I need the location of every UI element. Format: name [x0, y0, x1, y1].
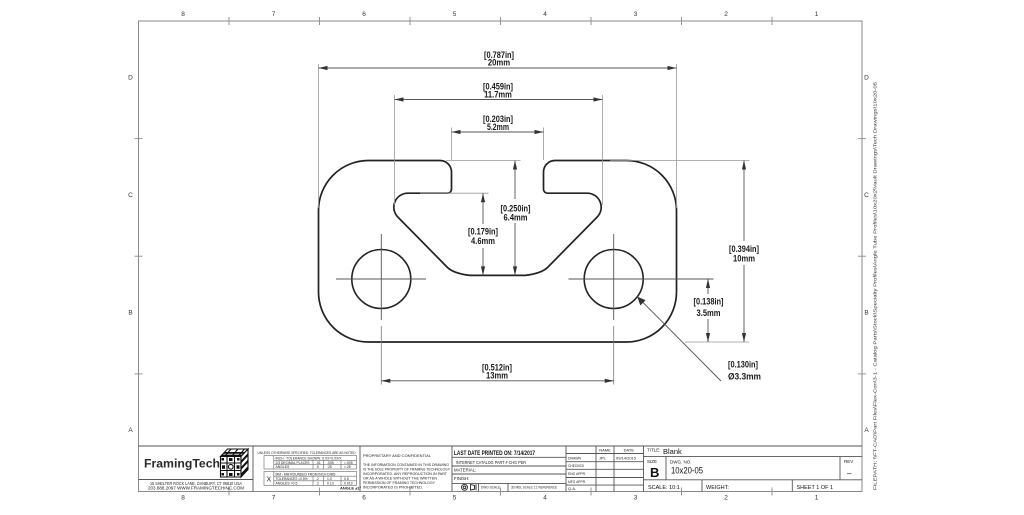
svg-text:.25: .25	[327, 465, 332, 469]
svg-text:3D MDL SCALE 1:1 REFERENCE: 3D MDL SCALE 1:1 REFERENCE	[511, 486, 557, 490]
svg-text:MFG APPR.: MFG APPR.	[568, 479, 586, 484]
dimension 4.6mm extension line	[420, 192, 489, 194]
svg-text:ANGLES =0.5: ANGLES =0.5	[276, 481, 298, 485]
svg-text:DATE: DATE	[624, 448, 635, 453]
svg-text:MM - MM ROUNDED FROM INCH DIMS: MM - MM ROUNDED FROM INCH DIMS	[276, 472, 337, 476]
svg-text:INCORPORATED IS PROHIBITED.: INCORPORATED IS PROHIBITED.	[363, 485, 423, 490]
dimension 6.4mm label	[501, 204, 531, 223]
svg-text:SCALE: 10:1: SCALE: 10:1	[648, 485, 680, 491]
svg-text:1.0: 1.0	[327, 477, 332, 481]
dimension 5.2mm line	[452, 131, 544, 133]
svg-text:4: 4	[543, 11, 547, 18]
svg-text:C: C	[864, 192, 869, 199]
svg-text:D: D	[128, 75, 133, 82]
svg-text:09/14/2015: 09/14/2015	[616, 456, 637, 461]
svg-text:PROPRIETARY AND CONFIDENTIAL: PROPRIETARY AND CONFIDENTIAL	[363, 453, 432, 458]
svg-text:DWG SCALE: DWG SCALE	[481, 486, 500, 490]
svg-text:DRAWN: DRAWN	[568, 456, 581, 461]
leader label	[728, 359, 761, 381]
svg-text:1: 1	[815, 495, 819, 502]
svg-text:TOLERANCES =0.5%: TOLERANCES =0.5%	[276, 477, 308, 481]
dimension 5.2mm extension lines	[451, 128, 453, 161]
dimension 3.5mm label	[694, 297, 724, 318]
svg-text:C: C	[128, 192, 133, 199]
dimension 11.7mm line	[395, 99, 603, 101]
dimension 11.7mm label	[483, 82, 513, 100]
centerline right hole horizontal	[569, 278, 714, 280]
svg-text:10x20-05: 10x20-05	[671, 466, 703, 476]
svg-text:11.7mm: 11.7mm	[484, 89, 512, 99]
svg-text:6: 6	[362, 11, 366, 18]
projection symbol	[462, 484, 477, 490]
svg-text:SIZE: SIZE	[647, 459, 657, 464]
svg-text:5: 5	[453, 495, 457, 502]
svg-text:[0.179in]: [0.179in]	[468, 227, 498, 237]
printed cell row lines	[452, 456, 566, 458]
right face stripes	[241, 453, 248, 464]
dimension 10mm label	[729, 244, 759, 264]
svg-text:.5: .5	[316, 465, 319, 469]
svg-text:7: 7	[272, 495, 276, 502]
dimension 3.5mm line	[707, 279, 709, 294]
dimension 4.6mm line	[482, 193, 484, 224]
hole left	[352, 250, 411, 309]
svg-text:1: 1	[815, 11, 819, 18]
svg-text:ENG APPR.: ENG APPR.	[568, 471, 586, 476]
svg-text:X: X	[266, 477, 271, 484]
border zone ticks	[135, 17, 867, 496]
svg-text:20mm: 20mm	[488, 58, 510, 68]
svg-text:FILEPATH: \\FT-CAD\Part Files\: FILEPATH: \\FT-CAD\Part Files\Flex-Con\3…	[873, 81, 878, 490]
svg-text:=.005: =.005	[344, 461, 353, 465]
svg-text:Ø3.3mm: Ø3.3mm	[728, 372, 761, 382]
svg-text:A: A	[128, 427, 133, 434]
sheet border frame	[139, 21, 863, 492]
logo extrusion cube	[221, 449, 249, 477]
svg-text:FramingTech: FramingTech	[144, 459, 220, 471]
svg-text:LAST DATE PRINTED ON: 7/14/201: LAST DATE PRINTED ON: 7/14/2017	[454, 450, 535, 457]
svg-text:3.5mm: 3.5mm	[697, 308, 721, 318]
svg-text:UNLESS OTHERWISE SPECIFIED: TO: UNLESS OTHERWISE SPECIFIED: TOLERANCES A…	[258, 450, 356, 455]
dimension 6.4mm extension line	[446, 160, 521, 162]
svg-text:D: D	[864, 75, 869, 82]
svg-text:ANGLES: ANGLES	[276, 465, 290, 469]
svg-text:B: B	[128, 310, 132, 317]
svg-text:0.13: 0.13	[327, 481, 334, 485]
logo address lines	[148, 481, 245, 490]
svg-text:DWG. NO.: DWG. NO.	[670, 460, 692, 465]
title block top edge	[139, 445, 863, 447]
svg-text:5: 5	[453, 11, 457, 18]
svg-text:REV: REV	[844, 459, 853, 464]
svg-text:A: A	[864, 427, 869, 434]
tolerance table inch	[264, 456, 357, 470]
svg-text:3: 3	[634, 495, 638, 502]
svg-text:8: 8	[181, 495, 185, 502]
svg-text:5.2mm: 5.2mm	[487, 122, 509, 132]
svg-text:CHECKED: CHECKED	[568, 463, 584, 468]
proprietary note	[363, 453, 450, 490]
svg-text:2/3 DECIMAL PLACES: 2/3 DECIMAL PLACES	[276, 461, 311, 465]
svg-text:NAME: NAME	[599, 448, 611, 453]
title cell row lines	[644, 455, 863, 457]
svg-text:7: 7	[272, 11, 276, 18]
centerline left hole vertical	[380, 234, 382, 320]
zone numbers bottom	[181, 495, 819, 502]
svg-text:[0.138in]: [0.138in]	[694, 297, 724, 307]
svg-text:4: 4	[543, 495, 547, 502]
svg-text:SHEET 1 OF 1: SHEET 1 OF 1	[797, 485, 834, 491]
svg-text:–: –	[847, 469, 852, 478]
hole right	[584, 250, 643, 309]
svg-text:WEIGHT:: WEIGHT:	[706, 485, 729, 491]
svg-text:6: 6	[362, 495, 366, 502]
zone letters right	[864, 75, 869, 435]
svg-text:2: 2	[724, 11, 728, 18]
svg-text:Blank: Blank	[663, 447, 682, 456]
dimension 20mm line	[319, 67, 677, 69]
name date table texts	[568, 448, 637, 492]
svg-text:0.5: 0.5	[344, 477, 349, 481]
svg-text:JPL: JPL	[599, 456, 607, 461]
top face stripes	[223, 452, 245, 454]
dimension 10mm line	[743, 161, 745, 242]
svg-text:[0.130in]: [0.130in]	[728, 359, 758, 369]
zone numbers top	[181, 11, 819, 18]
svg-text:.2: .2	[316, 477, 319, 481]
logo cell address divider	[139, 479, 254, 481]
zone letters left	[128, 75, 133, 435]
svg-text:2: 2	[724, 495, 728, 502]
dimension 13mm line	[381, 380, 613, 382]
dimension 20mm label	[484, 50, 514, 68]
svg-text:B: B	[864, 310, 868, 317]
dimension 20mm extension lines	[318, 64, 320, 208]
svg-text:=.25: =.25	[344, 465, 351, 469]
svg-text:INCH - TOLERANCE SHOWN: X.XX=0: INCH - TOLERANCE SHOWN: X.XX=0.XX/X	[276, 456, 343, 460]
svg-text:FINISH:: FINISH:	[454, 476, 469, 481]
dimension 4.6mm label	[468, 227, 498, 247]
front face profile	[226, 457, 228, 478]
svg-text:Q.A.: Q.A.	[568, 486, 576, 491]
svg-text:13mm: 13mm	[486, 371, 508, 381]
svg-text:8: 8	[181, 11, 185, 18]
dimension 11.7mm extension lines	[394, 95, 396, 205]
centerline left hole horizontal	[336, 278, 426, 280]
svg-text:10mm: 10mm	[733, 254, 755, 264]
dimension 6.4mm line	[514, 161, 516, 200]
svg-text:MATERIAL:: MATERIAL:	[454, 468, 476, 473]
tolerance table metric	[264, 472, 357, 486]
svg-text:6.4mm: 6.4mm	[504, 213, 528, 223]
svg-text:203.888.2097 WWW.FRAMINGTECHI: 203.888.2097 WWW.FRAMINGTECHINC.COM	[148, 486, 245, 491]
dimension 10mm extension lines	[610, 160, 750, 162]
svg-text:.005: .005	[327, 461, 334, 465]
svg-text:B: B	[650, 465, 659, 480]
svg-text:.01: .01	[316, 461, 321, 465]
leader diameter 3.3mm	[637, 297, 721, 381]
svg-text:.2: .2	[316, 481, 319, 485]
svg-text:3: 3	[634, 11, 638, 18]
svg-text:4.6mm: 4.6mm	[471, 236, 495, 246]
part outline	[319, 161, 677, 343]
dimension 5.2mm label	[483, 114, 513, 132]
cell dividers vertical	[252, 446, 254, 492]
svg-text:[0.394in]: [0.394in]	[729, 244, 759, 254]
name/date table lines	[595, 446, 597, 492]
dimension 13mm label	[482, 363, 512, 381]
svg-text:INTERNET CATALOG PART # CHG PE: INTERNET CATALOG PART # CHG PER	[456, 460, 526, 465]
centerline right hole vertical	[613, 234, 615, 320]
svg-text:TITLE:: TITLE:	[647, 448, 661, 453]
svg-text:ANGLE ±1°: ANGLE ±1°	[340, 485, 362, 490]
